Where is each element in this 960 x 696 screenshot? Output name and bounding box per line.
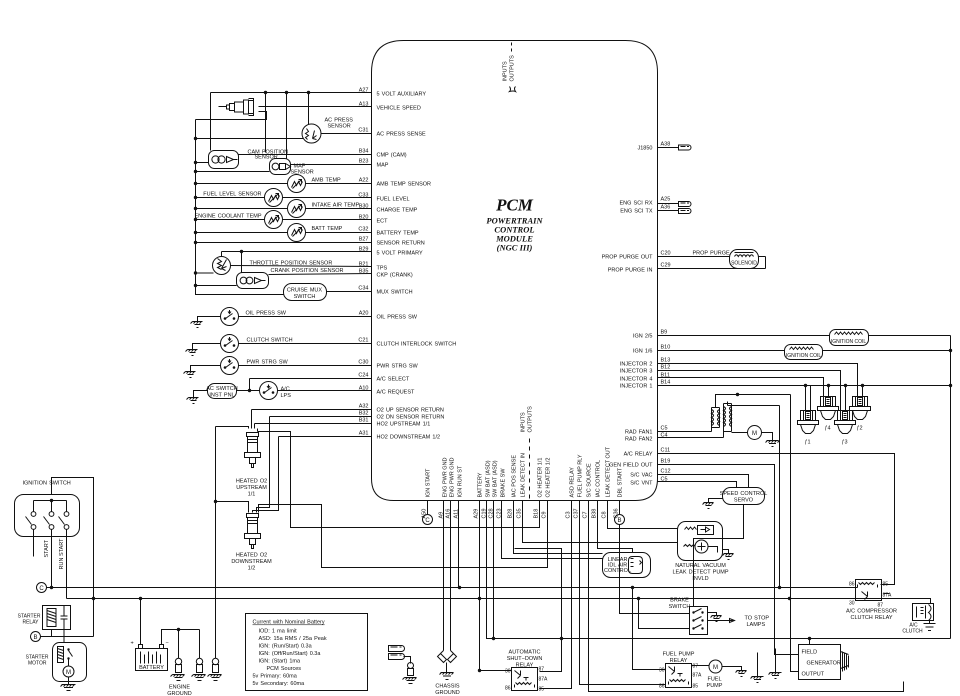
svg-text:VEHICLE SPEED: VEHICLE SPEED xyxy=(377,106,421,112)
svg-text:85: 85 xyxy=(539,687,545,693)
svg-text:87A: 87A xyxy=(693,673,703,679)
svg-text:87: 87 xyxy=(539,667,545,673)
svg-text:B: B xyxy=(33,635,37,641)
svg-text:IGN 2/5: IGN 2/5 xyxy=(633,334,653,340)
svg-text:A/C RELAY: A/C RELAY xyxy=(624,452,653,458)
svg-text:C7: C7 xyxy=(583,511,589,518)
svg-text:A31: A31 xyxy=(359,431,369,437)
svg-text:CKP (CRANK): CKP (CRANK) xyxy=(377,273,413,279)
svg-text:B9: B9 xyxy=(661,330,668,336)
svg-text:Current with Nominal Batter: Current with Nominal Battery xyxy=(253,620,325,626)
svg-text:A29: A29 xyxy=(474,509,480,519)
svg-text:B18: B18 xyxy=(534,509,540,519)
svg-text:UPSTREAM: UPSTREAM xyxy=(236,485,267,491)
svg-text:IGNITION COIL: IGNITION COIL xyxy=(786,353,822,359)
svg-text:LEAK DETECT OUT: LEAK DETECT OUT xyxy=(606,446,612,497)
svg-text:IOD: 1 ma limit: IOD: 1 ma limit xyxy=(259,629,298,635)
svg-text:ECT: ECT xyxy=(377,219,389,225)
svg-text:C31: C31 xyxy=(358,128,368,134)
svg-text:GROUND: GROUND xyxy=(435,690,459,696)
svg-text:ENG PWR GND: ENG PWR GND xyxy=(443,457,449,497)
svg-text:SPEED CONTROL: SPEED CONTROL xyxy=(720,491,768,497)
svg-text:J1850: J1850 xyxy=(638,146,653,152)
svg-text:B12: B12 xyxy=(661,365,671,371)
svg-text:C: C xyxy=(39,586,44,592)
svg-text:FUEL: FUEL xyxy=(707,677,721,683)
svg-text:(NGC III): (NGC III) xyxy=(497,243,533,253)
svg-text:INTAKE AIR TEMP: INTAKE AIR TEMP xyxy=(312,203,360,209)
svg-text:B27: B27 xyxy=(359,237,369,243)
svg-text:GROUND: GROUND xyxy=(167,691,191,696)
svg-text:FUEL LEVEL SENSOR: FUEL LEVEL SENSOR xyxy=(203,192,261,198)
svg-text:FUEL LEVEL: FUEL LEVEL xyxy=(377,197,410,203)
svg-text:30: 30 xyxy=(849,601,855,607)
svg-text:OIL PRESS SW: OIL PRESS SW xyxy=(377,315,418,321)
svg-text:CLUTCH RELAY: CLUTCH RELAY xyxy=(850,615,892,621)
svg-text:O2 HEATER 1/2: O2 HEATER 1/2 xyxy=(546,458,552,498)
svg-text:C: C xyxy=(425,518,430,524)
svg-text:MAP: MAP xyxy=(377,163,389,169)
svg-text:C24: C24 xyxy=(358,373,368,379)
svg-text:30: 30 xyxy=(659,668,665,674)
svg-text:A20: A20 xyxy=(359,311,369,317)
svg-text:A/C: A/C xyxy=(281,387,290,393)
svg-text:RAD FAN1: RAD FAN1 xyxy=(625,430,653,436)
svg-text:A36: A36 xyxy=(661,205,671,211)
svg-text:SENSOR RETURN: SENSOR RETURN xyxy=(377,241,425,247)
svg-text:87A: 87A xyxy=(539,677,549,683)
svg-text:C32: C32 xyxy=(358,227,368,233)
svg-text:C3: C3 xyxy=(566,511,572,518)
svg-text:RUN START: RUN START xyxy=(59,538,65,570)
svg-text:B34: B34 xyxy=(359,149,369,155)
svg-text:C34: C34 xyxy=(358,286,368,292)
svg-text:OUTPUTS: OUTPUTS xyxy=(510,55,516,82)
svg-text:PUMP: PUMP xyxy=(707,683,723,689)
svg-text:MUX SWITCH: MUX SWITCH xyxy=(377,290,413,296)
svg-text:START: START xyxy=(44,539,50,557)
svg-text:O2 HEATER 1/1: O2 HEATER 1/1 xyxy=(538,458,544,498)
svg-text:SW BAT (ASD): SW BAT (ASD) xyxy=(486,460,492,497)
svg-text:−: − xyxy=(166,641,169,647)
svg-text:A22: A22 xyxy=(359,178,369,184)
svg-text:5v Secondary: 60ma: 5v Secondary: 60ma xyxy=(253,681,306,687)
svg-text:ƒ2: ƒ2 xyxy=(856,426,862,432)
svg-text:IGN RUN ST: IGN RUN ST xyxy=(458,465,464,497)
svg-text:SOLENOID: SOLENOID xyxy=(731,261,757,267)
svg-text:AC SWITCH: AC SWITCH xyxy=(206,386,237,392)
svg-text:IGN START: IGN START xyxy=(426,468,432,497)
svg-text:A/C COMPRESSOR: A/C COMPRESSOR xyxy=(846,609,897,615)
svg-text:PROP PURGE: PROP PURGE xyxy=(693,251,731,257)
svg-text:INPUTS: INPUTS xyxy=(521,412,527,433)
svg-text:OUTPUT: OUTPUT xyxy=(802,672,825,678)
svg-text:IGNITION SWITCH: IGNITION SWITCH xyxy=(23,481,71,487)
svg-text:INJECTOR 2: INJECTOR 2 xyxy=(620,362,653,368)
svg-text:O2 UP SENSOR RETURN: O2 UP SENSOR RETURN xyxy=(377,408,444,414)
svg-text:SERVO: SERVO xyxy=(734,498,754,504)
svg-text:CMP (CAM): CMP (CAM) xyxy=(377,153,407,159)
svg-text:PCM: PCM xyxy=(495,196,534,215)
svg-text:BATTERY: BATTERY xyxy=(139,665,164,671)
svg-text:ENGINE COOLANT TEMP: ENGINE COOLANT TEMP xyxy=(194,214,261,220)
svg-text:PWR STRG SW: PWR STRG SW xyxy=(247,360,289,366)
svg-text:B13: B13 xyxy=(661,358,671,364)
svg-text:B14: B14 xyxy=(661,380,671,386)
svg-text:SW BAT (ASD): SW BAT (ASD) xyxy=(493,460,499,497)
svg-text:B19: B19 xyxy=(661,459,671,465)
svg-text:INVLD: INVLD xyxy=(692,576,708,582)
svg-text:FUEL PUMP RLY: FUEL PUMP RLY xyxy=(578,454,584,497)
svg-text:BATT TEMP: BATT TEMP xyxy=(312,226,343,232)
svg-text:ƒ3: ƒ3 xyxy=(841,440,847,446)
svg-text:HO2 UPSTREAM 1/1: HO2 UPSTREAM 1/1 xyxy=(377,422,431,428)
svg-text:C29: C29 xyxy=(661,263,671,269)
svg-text:OUTPUTS: OUTPUTS xyxy=(528,406,534,433)
svg-text:86: 86 xyxy=(849,582,855,588)
svg-text:C11: C11 xyxy=(661,448,671,454)
svg-text:PROP PURGE OUT: PROP PURGE OUT xyxy=(602,255,654,261)
svg-text:ENG PWR GND: ENG PWR GND xyxy=(450,457,456,497)
svg-text:B: B xyxy=(617,518,621,524)
svg-text:TPS: TPS xyxy=(377,266,388,272)
svg-text:LEAK DETECT IN: LEAK DETECT IN xyxy=(521,453,527,498)
svg-text:IGNITION COIL: IGNITION COIL xyxy=(831,339,867,345)
svg-text:BRAKE: BRAKE xyxy=(670,598,689,604)
svg-text:S/C VAC: S/C VAC xyxy=(630,473,652,479)
svg-text:O2 DN SENSOR RETURN: O2 DN SENSOR RETURN xyxy=(377,415,445,421)
svg-text:85: 85 xyxy=(883,582,889,588)
svg-text:IGN: (Start) 1ma: IGN: (Start) 1ma xyxy=(259,659,301,665)
svg-text:C9: C9 xyxy=(542,511,548,518)
svg-text:C12: C12 xyxy=(661,469,671,475)
svg-text:A/C REQUEST: A/C REQUEST xyxy=(377,390,416,396)
svg-text:IGN: (Off/Run/Start) 0.3a: IGN: (Off/Run/Start) 0.3a xyxy=(259,651,322,657)
svg-text:ƒ4: ƒ4 xyxy=(824,426,830,432)
svg-text:INJECTOR 3: INJECTOR 3 xyxy=(620,369,653,375)
svg-text:86: 86 xyxy=(659,684,665,690)
svg-text:CHASSIS: CHASSIS xyxy=(435,684,459,690)
svg-text:PCM Sources: PCM Sources xyxy=(267,666,302,672)
svg-text:1/2: 1/2 xyxy=(248,566,256,572)
svg-text:5 VOLT AUXILIARY: 5 VOLT AUXILIARY xyxy=(377,92,427,98)
svg-text:C37: C37 xyxy=(574,508,580,518)
svg-text:C21: C21 xyxy=(358,338,368,344)
svg-text:HEATED O2: HEATED O2 xyxy=(236,479,267,485)
svg-text:PROP PURGE IN: PROP PURGE IN xyxy=(608,268,653,274)
svg-text:GEN FIELD OUT: GEN FIELD OUT xyxy=(609,463,653,469)
svg-text:AMB TEMP: AMB TEMP xyxy=(312,178,342,184)
svg-text:85: 85 xyxy=(693,684,699,690)
svg-text:BATTERY: BATTERY xyxy=(478,472,484,497)
svg-text:B10: B10 xyxy=(661,345,671,351)
svg-text:A25: A25 xyxy=(661,197,671,203)
svg-text:5v Primary: 60ma: 5v Primary: 60ma xyxy=(253,674,298,680)
svg-text:ENG SCI TX: ENG SCI TX xyxy=(620,209,653,215)
svg-text:30: 30 xyxy=(505,669,511,675)
svg-text:IGN 1/6: IGN 1/6 xyxy=(633,349,653,355)
svg-text:ENG SCI RX: ENG SCI RX xyxy=(620,201,653,207)
svg-text:B38: B38 xyxy=(592,509,598,519)
svg-text:LEAK DETECT PUMP: LEAK DETECT PUMP xyxy=(672,570,728,576)
svg-text:IGN: (Run/Start) 0.3a: IGN: (Run/Start) 0.3a xyxy=(259,644,313,650)
svg-text:C20: C20 xyxy=(661,251,671,257)
svg-text:FUEL PUMP: FUEL PUMP xyxy=(663,652,695,658)
svg-text:AC PRESS SENSE: AC PRESS SENSE xyxy=(377,132,427,138)
svg-text:CLUTCH: CLUTCH xyxy=(902,629,923,635)
svg-text:M: M xyxy=(752,431,757,437)
svg-text:NATURAL VACUUM: NATURAL VACUUM xyxy=(675,563,726,569)
svg-text:BRAKE SW: BRAKE SW xyxy=(501,468,507,498)
svg-text:C36: C36 xyxy=(614,508,620,518)
svg-text:IAC CONTROL: IAC CONTROL xyxy=(596,460,602,498)
svg-text:M: M xyxy=(66,670,71,676)
svg-text:LPS: LPS xyxy=(281,393,292,399)
svg-text:S/C VNT: S/C VNT xyxy=(630,481,653,487)
svg-text:INJECTOR 1: INJECTOR 1 xyxy=(620,384,653,390)
svg-text:SENSOR: SENSOR xyxy=(328,124,351,130)
svg-text:TO STOP: TO STOP xyxy=(745,616,770,622)
svg-text:ASD: 15a RMS / 25a Peak: ASD: 15a RMS / 25a Peak xyxy=(259,636,327,642)
svg-text:SWITCH: SWITCH xyxy=(669,604,691,610)
svg-text:B28: B28 xyxy=(508,509,514,519)
svg-text:HEATED O2: HEATED O2 xyxy=(236,553,267,559)
svg-text:C5: C5 xyxy=(661,426,668,432)
svg-text:CRANK POSITION SENSOR: CRANK POSITION SENSOR xyxy=(271,268,344,274)
svg-text:B31: B31 xyxy=(359,418,369,424)
svg-text:1/1: 1/1 xyxy=(248,492,256,498)
svg-text:A38: A38 xyxy=(661,142,671,148)
svg-text:INPUTS: INPUTS xyxy=(503,61,509,82)
svg-text:HO2 DOWNSTREAM 1/2: HO2 DOWNSTREAM 1/2 xyxy=(377,435,441,441)
svg-text:FIELD: FIELD xyxy=(802,650,818,656)
svg-text:CLUTCH SWITCH: CLUTCH SWITCH xyxy=(247,338,293,344)
svg-text:SHUT−DOWN: SHUT−DOWN xyxy=(507,656,543,662)
svg-text:M: M xyxy=(713,665,718,671)
svg-text:ASD RELAY: ASD RELAY xyxy=(570,467,576,498)
svg-text:S/C SOURCE: S/C SOURCE xyxy=(587,463,593,498)
svg-text:AMB TEMP SENSOR: AMB TEMP SENSOR xyxy=(377,182,432,188)
svg-text:C35: C35 xyxy=(517,508,523,518)
svg-text:C8: C8 xyxy=(602,511,608,518)
svg-text:INST PNL: INST PNL xyxy=(209,393,234,399)
svg-text:5 VOLT PRIMARY: 5 VOLT PRIMARY xyxy=(377,251,423,257)
svg-text:SENSOR: SENSOR xyxy=(255,155,278,161)
svg-text:LAMPS: LAMPS xyxy=(747,622,766,628)
svg-text:RELAY: RELAY xyxy=(22,620,39,626)
svg-text:MOTOR: MOTOR xyxy=(28,661,47,667)
svg-text:BATTERY TEMP: BATTERY TEMP xyxy=(377,231,419,237)
svg-text:CLUTCH INTERLOCK SWITCH: CLUTCH INTERLOCK SWITCH xyxy=(377,342,457,348)
svg-text:IAC POS SENSE: IAC POS SENSE xyxy=(512,455,518,498)
svg-text:+: + xyxy=(131,641,134,647)
svg-text:ENGINE: ENGINE xyxy=(169,685,190,691)
svg-text:DBL START: DBL START xyxy=(618,467,624,497)
svg-text:CRUISE MUX: CRUISE MUX xyxy=(287,288,322,294)
svg-text:ƒ1: ƒ1 xyxy=(804,440,810,446)
svg-text:INJECTOR 4: INJECTOR 4 xyxy=(620,377,653,383)
svg-text:PWR STRG SW: PWR STRG SW xyxy=(377,364,419,370)
svg-text:AUTOMATIC: AUTOMATIC xyxy=(509,650,541,656)
svg-text:B32: B32 xyxy=(359,411,369,417)
svg-text:DOWNSTREAM: DOWNSTREAM xyxy=(231,559,272,565)
svg-text:CONTROL: CONTROL xyxy=(604,568,631,574)
svg-text:C30: C30 xyxy=(358,360,368,366)
svg-text:GENERATOR: GENERATOR xyxy=(807,661,841,667)
svg-text:OIL PRESS SW: OIL PRESS SW xyxy=(246,311,287,317)
svg-text:CHARGE TEMP: CHARGE TEMP xyxy=(377,208,418,214)
svg-text:86: 86 xyxy=(505,686,511,692)
svg-text:THROTTLE POSITION SENSOR: THROTTLE POSITION SENSOR xyxy=(250,261,333,267)
svg-text:87: 87 xyxy=(693,664,699,670)
svg-text:RAD FAN2: RAD FAN2 xyxy=(625,437,653,443)
svg-text:SWITCH: SWITCH xyxy=(294,294,316,300)
svg-text:A32: A32 xyxy=(359,404,369,410)
svg-text:A/C SELECT: A/C SELECT xyxy=(377,377,410,383)
svg-text:B23: B23 xyxy=(359,159,369,165)
